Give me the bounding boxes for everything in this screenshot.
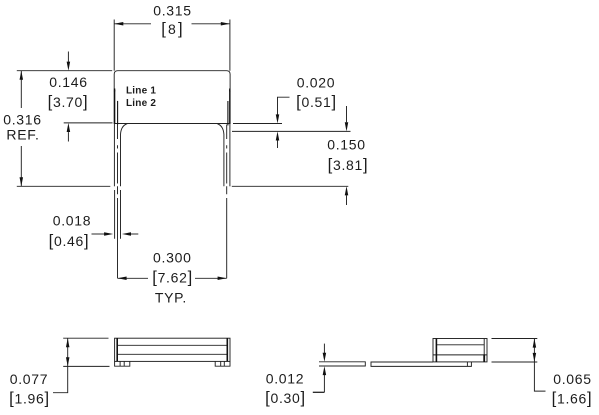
- dim 0.316 bottom arrow: [20, 177, 24, 186]
- svg-text:0.018: 0.018: [53, 213, 92, 229]
- svg-text:TYP.: TYP.: [155, 290, 187, 306]
- svg-text:[1.96]: [1.96]: [9, 389, 50, 408]
- svg-text:0.146: 0.146: [49, 74, 88, 90]
- svg-text:[0.30]: [0.30]: [265, 388, 306, 407]
- dim 0.018 extension lines (lead edges extended): [115, 190, 121, 239]
- right lead centerline below body: [226, 125, 228, 184]
- dim 0.012 leader: [313, 391, 325, 393]
- dim 0.146 top extension line: [17, 70, 112, 72]
- dim 0.150 bottom arrow (outside, pointing up): [346, 195, 348, 205]
- svg-text:0.077: 0.077: [10, 371, 49, 387]
- svg-text:0.300: 0.300: [153, 250, 192, 266]
- svg-text:[3.70]: [3.70]: [48, 92, 89, 111]
- side view (bottom-left): body outline: [115, 338, 230, 361]
- left lead fillet and inner edge: [121, 124, 128, 187]
- dim 0.316 top arrow: [20, 71, 24, 80]
- side view right lead (heavy): [226, 338, 228, 361]
- dim 0.077 leader: [53, 366, 68, 392]
- svg-text:0.012: 0.012: [266, 371, 305, 387]
- dim 0.077 dimension line with arrows: [67, 338, 69, 366]
- front view: capacitor body outline: [114, 71, 230, 124]
- side view right foot: [215, 361, 230, 366]
- dim 0.065 dimension line with arrows: [533, 339, 535, 363]
- left lead outer edge: [113, 124, 115, 187]
- dim 0.315 dimension line: [114, 23, 230, 25]
- svg-text:[3.81]: [3.81]: [328, 155, 369, 174]
- end view right lead (thin above, heavy below): [483, 339, 485, 355]
- left lead wire tip: [114, 88, 116, 91]
- right lead outer edge: [229, 124, 231, 187]
- right lead fillet and inner edge: [217, 124, 224, 187]
- dim 0.150 top arrow (outside, pointing down): [346, 106, 348, 122]
- svg-text:[1.66]: [1.66]: [552, 389, 593, 408]
- svg-text:Line 1: Line 1: [126, 86, 156, 97]
- dim 0.020 lower arrow (pointing up): [277, 141, 279, 149]
- end view left lead (heavy): [435, 339, 437, 362]
- svg-text:[0.51]: [0.51]: [296, 92, 337, 111]
- seating plane line right segment: [232, 185, 348, 187]
- end view under-body lead strip: [371, 362, 471, 366]
- right lead wire tip: [229, 88, 231, 91]
- dim 0.315 right arrow: [221, 22, 230, 26]
- dim 0.012 top arrow (pointing down): [323, 344, 325, 354]
- dim 0.018 right arrow (pointing left): [131, 233, 138, 235]
- end view body layer lines: [433, 345, 487, 355]
- dim 0.020 upper extension line (body bottom extended): [233, 123, 282, 125]
- right lead centerline long-dash inside body: [227, 101, 229, 125]
- dim 0.077 extension lines: [63, 338, 109, 366]
- dim 0.315 left arrow: [114, 22, 123, 26]
- dim 0.012 bottom arrow (pointing up): [323, 375, 325, 393]
- dim 0.065 leader: [534, 362, 545, 391]
- svg-text:0.020: 0.020: [297, 75, 336, 91]
- dim 0.300 right arrow: [218, 277, 227, 281]
- dim 0.020 leader elbow: [278, 97, 290, 114]
- right lead inside body (wire edge): [229, 89, 231, 124]
- dim 0.020 lower extension line (flare bottom extended): [232, 130, 351, 132]
- dim 0.316 REF dimension line: [20, 71, 22, 187]
- svg-text:[7.62]: [7.62]: [152, 268, 193, 287]
- dim 0.018 left arrow (pointing right): [92, 233, 105, 235]
- dim 0.315 extension lines: [114, 20, 230, 71]
- left lead centerline long-dash inside body: [117, 101, 119, 125]
- dim 0.300 left arrow: [118, 277, 127, 281]
- svg-text:[8]: [8]: [161, 19, 185, 38]
- side view left foot: [115, 361, 130, 366]
- left lead centerline below body: [117, 125, 119, 184]
- svg-text:0.316: 0.316: [3, 112, 42, 128]
- end view body outline: [433, 339, 487, 362]
- dim 0.146 top arrow (outside, pointing down): [67, 52, 69, 62]
- dim 0.065 extension lines: [492, 339, 538, 363]
- svg-text:0.150: 0.150: [327, 136, 366, 152]
- right lead centerline below seating plane: [226, 186, 228, 278]
- dim 0.146 bottom arrow (outside, pointing up): [67, 132, 69, 141]
- side view left lead (heavy): [116, 338, 118, 361]
- left lead centerline below seating plane: [117, 186, 119, 278]
- svg-text:REF.: REF.: [6, 127, 39, 143]
- svg-text:Line 2: Line 2: [126, 98, 156, 109]
- side view horizontal layer lines: [117, 345, 227, 354]
- svg-text:0.065: 0.065: [553, 371, 592, 387]
- svg-text:[0.46]: [0.46]: [49, 231, 90, 250]
- end view (bottom-right): left lead strip: [319, 362, 365, 366]
- svg-text:0.315: 0.315: [153, 3, 192, 19]
- dim 0.146 bottom extension line: [64, 122, 113, 124]
- dim 0.020 upper arrow (pointing down): [276, 114, 280, 123]
- left lead inside body (wire edge): [114, 89, 116, 124]
- seating plane line left segment: [17, 185, 111, 187]
- dim 0.300 dimension line: [118, 277, 227, 279]
